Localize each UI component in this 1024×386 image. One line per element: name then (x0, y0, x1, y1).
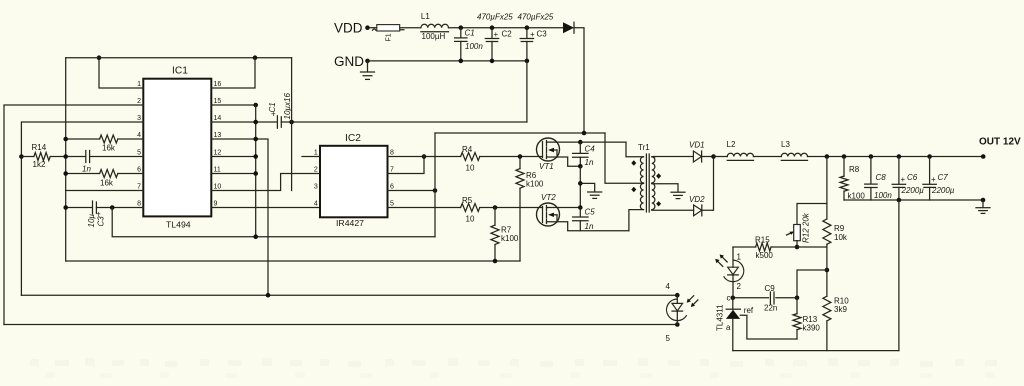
svg-text:TL4311: TL4311 (716, 304, 725, 331)
svg-text:C2: C2 (502, 30, 513, 39)
primary winding (626, 142, 644, 157)
wire pin14 with C1 10ux16 (211, 121, 277, 123)
capacitor 1n pin5 (50, 156, 85, 158)
svg-text:R14: R14 (32, 143, 47, 152)
wire GND drop to pin14 line (526, 61, 528, 122)
resistor R9 10k (825, 154, 830, 159)
resistor 16k pin4 (66, 138, 100, 140)
svg-text:F1: F1 (386, 33, 393, 41)
right bus vertical (255, 105, 257, 237)
svg-text:L3: L3 (781, 140, 790, 149)
svg-text:TL494: TL494 (166, 220, 191, 230)
node VDD input (365, 25, 370, 30)
wire pin10 step to IC2 pin2 (211, 174, 320, 191)
svg-text:k390: k390 (803, 324, 821, 333)
svg-text:Tr1: Tr1 (638, 143, 650, 152)
wire bus pin8 feed (112, 208, 435, 237)
wire riser rail to IC2 pin3 (291, 58, 293, 191)
svg-text:470µFx25: 470µFx25 (477, 13, 513, 22)
svg-text:R9: R9 (834, 224, 845, 233)
svg-text:4: 4 (666, 282, 671, 291)
secondary winding (652, 157, 655, 183)
diode VD1 (693, 151, 701, 162)
diode input (563, 22, 574, 33)
capacitor C4 1n (578, 140, 583, 145)
svg-text:6: 6 (390, 184, 394, 191)
optocoupler photodiode side (675, 293, 680, 298)
svg-text:L1: L1 (421, 12, 430, 21)
transistor VT1 mosfet (537, 138, 560, 161)
svg-text:1k2: 1k2 (33, 160, 46, 169)
svg-text:12: 12 (214, 150, 222, 157)
svg-text:C6: C6 (907, 173, 918, 182)
svg-text:6: 6 (137, 167, 141, 174)
svg-text:8: 8 (137, 201, 141, 208)
resistor R10 3k9 (823, 296, 831, 321)
wire pin16 riser (211, 58, 255, 88)
svg-text:1n: 1n (82, 165, 91, 174)
capacitor C9 22n (733, 297, 769, 299)
trimmer R12 20k (797, 204, 827, 225)
ground input (367, 61, 369, 72)
wire VDD rail mid (435, 132, 605, 134)
svg-text:2200µ: 2200µ (931, 186, 955, 195)
svg-text:R15: R15 (755, 236, 770, 245)
node GND input (365, 59, 370, 64)
wire GND rail (368, 60, 527, 62)
wire pin11 (211, 173, 255, 175)
svg-text:+: + (931, 175, 936, 184)
svg-text:1n: 1n (585, 222, 594, 231)
svg-text:10µ: 10µ (87, 214, 96, 228)
svg-text:C1: C1 (465, 29, 475, 38)
resistor R4 10 (388, 156, 461, 158)
svg-text:OUT 12V: OUT 12V (979, 137, 1021, 148)
svg-text:7: 7 (137, 184, 141, 191)
IC2 box IR4427 (320, 146, 388, 218)
wire bus feedback A (21, 294, 677, 296)
svg-text:IC2: IC2 (345, 133, 361, 144)
capacitor C8 100n (869, 154, 874, 159)
wire IC2 pin6 riser to VDD rail (388, 190, 436, 192)
capacitor C1 100n (459, 25, 464, 30)
svg-text:10k: 10k (834, 233, 848, 242)
svg-text:ref: ref (744, 306, 754, 315)
transistor VT2 mosfet (537, 203, 560, 226)
wire top rail (66, 57, 292, 59)
svg-text:C5: C5 (585, 208, 596, 217)
inductor L3 (781, 153, 807, 156)
wire pin3 drop (21, 122, 143, 295)
svg-text:10: 10 (466, 215, 475, 224)
svg-text:16k: 16k (102, 144, 116, 153)
svg-text:15: 15 (214, 98, 222, 105)
svg-text:a: a (726, 323, 731, 332)
ground mid (580, 183, 594, 191)
svg-text:2: 2 (137, 98, 141, 105)
resistor R7 k100 (493, 205, 498, 210)
svg-text:10: 10 (466, 164, 475, 173)
svg-text:1n: 1n (585, 158, 594, 167)
svg-text:5: 5 (137, 150, 141, 157)
svg-text:GND: GND (334, 54, 364, 69)
transformer core (645, 154, 647, 212)
capacitor C7 2200u (927, 154, 932, 159)
svg-text:14: 14 (214, 115, 222, 122)
svg-text:k100: k100 (848, 192, 866, 201)
svg-text:1: 1 (314, 150, 318, 157)
svg-text:2: 2 (737, 282, 742, 291)
svg-text:IC1: IC1 (172, 66, 188, 77)
svg-text:R12 20k: R12 20k (802, 212, 811, 243)
wire bus lower (66, 260, 520, 262)
svg-text:R13: R13 (803, 315, 818, 324)
svg-text:10µx16: 10µx16 (283, 93, 292, 120)
svg-text:3k9: 3k9 (834, 305, 847, 314)
svg-text:4: 4 (137, 132, 141, 139)
resistor R15 k500 (733, 246, 756, 248)
svg-text:5: 5 (390, 201, 394, 208)
wire fuse to L1 (400, 27, 421, 29)
svg-text:9: 9 (214, 201, 218, 208)
wire IC2 pin7 step (388, 157, 425, 174)
svg-text:k100: k100 (501, 234, 519, 243)
svg-text:C1: C1 (268, 102, 277, 112)
capacitor C6 2200u (897, 154, 902, 159)
phase dots (631, 160, 636, 165)
wire left bus vertical (65, 58, 67, 261)
svg-text:C7: C7 (938, 173, 949, 182)
svg-text:16k: 16k (100, 179, 114, 188)
wire L1 to diode (449, 27, 564, 29)
inductor L2 (727, 153, 753, 156)
svg-text:100n: 100n (465, 42, 483, 51)
svg-text:1: 1 (137, 81, 141, 88)
wire ref path (740, 315, 797, 339)
svg-text:2: 2 (314, 167, 318, 174)
svg-text:3: 3 (314, 184, 318, 191)
svg-text:470µFx25: 470µFx25 (518, 13, 554, 22)
svg-text:C9: C9 (765, 284, 776, 293)
svg-text:4: 4 (314, 201, 318, 208)
svg-text:VD1: VD1 (689, 140, 705, 149)
watermark (30, 358, 997, 367)
wire R9 bottom link (797, 270, 827, 298)
fuse F1 (377, 25, 400, 31)
capacitor C5 1n (579, 208, 581, 217)
wire pin9 to IC2 pin4 (211, 207, 320, 209)
svg-text:16: 16 (214, 81, 222, 88)
resistor R5 10 (388, 207, 461, 209)
svg-text:2200µ: 2200µ (901, 186, 925, 195)
resistor 16k pin6 (66, 173, 100, 175)
svg-text:100µH: 100µH (422, 32, 446, 41)
svg-text:L2: L2 (727, 140, 736, 149)
wire bus feedback B (4, 324, 677, 326)
svg-text:k100: k100 (526, 180, 544, 189)
IC1 box TL494 (143, 79, 211, 217)
svg-text:11: 11 (214, 167, 221, 174)
output ground rail (844, 199, 983, 201)
svg-text:10: 10 (214, 184, 222, 191)
capacitor C3 10u pin8 (66, 207, 92, 209)
bottom rail right (733, 350, 899, 352)
wire pin15 (211, 104, 255, 106)
wire gnd rail drop (898, 200, 900, 351)
resistor R14 1k2 (19, 154, 24, 159)
resistor R6 k100 (518, 154, 523, 159)
resistor R8 k100 (842, 154, 847, 159)
wire IC2 pin1 stub (302, 156, 320, 158)
svg-text:8: 8 (390, 150, 394, 157)
wire VDD to fuse (368, 27, 377, 29)
svg-text:+: + (530, 30, 535, 39)
wire to mid ground (579, 166, 581, 207)
svg-text:1: 1 (737, 252, 742, 261)
secondary bottom lead (652, 209, 694, 211)
shunt TL431 (731, 296, 736, 301)
node rail pin1 (97, 55, 102, 60)
resistor R13 k390 (796, 298, 798, 314)
wire pin7 (66, 190, 144, 192)
svg-text:VD2: VD2 (689, 195, 705, 204)
output line (714, 156, 728, 158)
capacitor C2 470uFx25 (490, 25, 495, 30)
ground output (981, 198, 986, 203)
svg-text:R8: R8 (849, 165, 860, 174)
svg-text:R4: R4 (462, 145, 473, 154)
svg-text:VT1: VT1 (539, 162, 554, 171)
wire pin2 long drop (4, 105, 143, 325)
primary center tap from VDD (605, 133, 644, 183)
wire pin12 (211, 156, 255, 158)
svg-text:3: 3 (137, 115, 141, 122)
inductor L1 100uH (421, 24, 449, 27)
diode VD2 (694, 205, 702, 216)
wire pin1 riser (99, 58, 143, 88)
wire VD2 to output node (702, 157, 714, 211)
svg-text:22n: 22n (764, 303, 777, 312)
svg-text:C4: C4 (585, 145, 596, 154)
secondary center tap ground (652, 184, 678, 192)
svg-text:+: + (494, 30, 499, 39)
optocoupler LED side (732, 247, 734, 267)
svg-text:VDD: VDD (334, 21, 363, 36)
node rail pin16 (253, 55, 258, 60)
svg-text:100n: 100n (874, 191, 892, 200)
svg-text:13: 13 (214, 132, 222, 139)
wire diode to right drop (574, 28, 584, 133)
svg-text:c: c (727, 294, 731, 303)
svg-text:C8: C8 (876, 173, 887, 182)
primary bottom lead (629, 210, 644, 231)
svg-text:k500: k500 (756, 251, 774, 260)
svg-text:7: 7 (390, 167, 394, 174)
svg-text:+: + (901, 175, 906, 184)
capacitor C3 470uFx25 (525, 25, 530, 30)
svg-text:C3: C3 (537, 30, 548, 39)
svg-text:IR4427: IR4427 (336, 218, 364, 228)
wire pin13 drop (211, 139, 268, 295)
secondary top lead (652, 156, 655, 158)
svg-text:5: 5 (666, 334, 671, 343)
svg-text:C3: C3 (96, 216, 105, 227)
svg-text:R5: R5 (462, 196, 473, 205)
svg-text:VT2: VT2 (541, 193, 556, 202)
